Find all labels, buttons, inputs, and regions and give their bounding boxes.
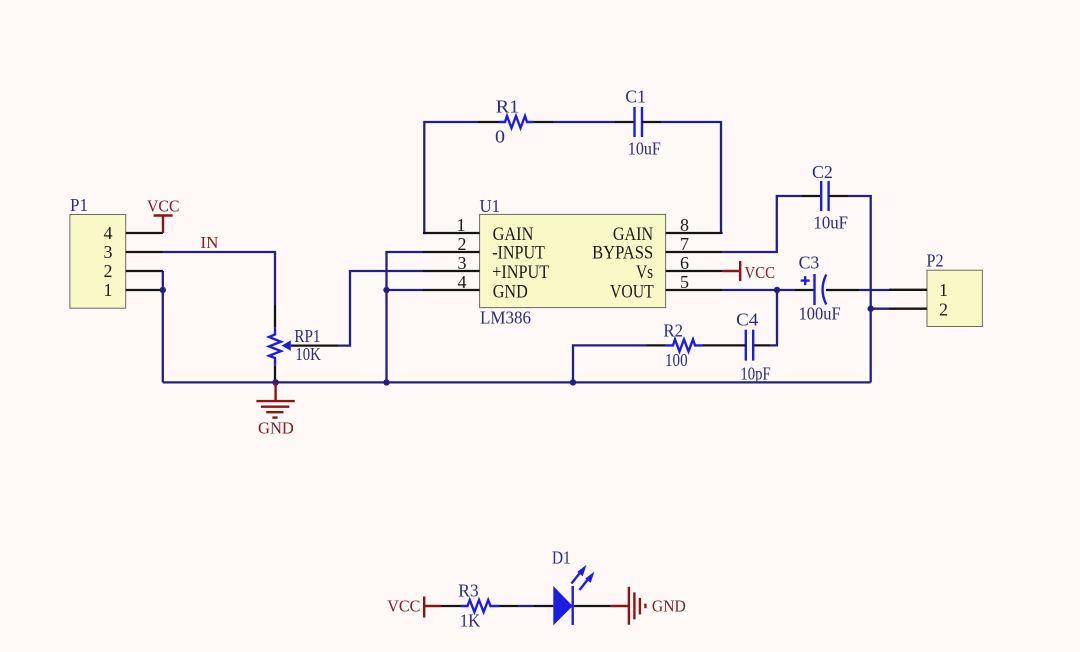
wire R1 to C1 <box>553 121 615 123</box>
wire U1 pin4 to pin2 branch <box>387 289 424 291</box>
power port VCC (U1 pin6) <box>723 261 775 282</box>
R3 left pin <box>441 605 461 607</box>
D1 triangle <box>553 586 572 625</box>
P1 pin 4 stub <box>126 232 163 234</box>
LED D1 <box>534 548 610 626</box>
C4 right pin <box>753 344 770 346</box>
C2 plates <box>820 181 822 211</box>
R2 zigzag body <box>666 339 703 351</box>
U1 pin 2 <box>423 234 480 254</box>
ground GND symbol (below RP1) <box>256 382 294 437</box>
wire C1 down to U1 pin8 <box>661 122 721 233</box>
svg-text:5: 5 <box>680 272 689 292</box>
wire VOUT node down to R2/C4 branch <box>770 290 777 345</box>
wire C3 to P2 pin1 <box>859 289 889 291</box>
svg-text:1: 1 <box>939 280 948 300</box>
svg-text:8: 8 <box>680 215 689 235</box>
C3 right pin <box>826 289 859 291</box>
node junction VOUT / C4 branch <box>774 287 780 293</box>
svg-text:R3: R3 <box>458 581 478 601</box>
svg-text:100: 100 <box>665 350 688 370</box>
U1 pin 7 <box>666 234 723 254</box>
C4 plates <box>745 330 747 361</box>
wire U1 pin5 VOUT to C3 <box>723 289 795 291</box>
wire R2 to ground rail <box>573 345 647 382</box>
wire P2 pin2 to output rail <box>871 308 889 310</box>
D1 light arrow 1 <box>572 572 582 584</box>
node junction U1 pin4 branch <box>383 287 389 293</box>
capacitor C3 (polarized 100uF) <box>795 252 859 323</box>
C1 left pin <box>615 121 635 123</box>
node junction at P1 pin1 <box>160 287 166 293</box>
svg-text:C3: C3 <box>799 252 820 272</box>
connector P1 <box>70 195 163 308</box>
svg-text:4: 4 <box>458 272 467 292</box>
U1 pin 6 <box>666 253 723 273</box>
svg-text:2: 2 <box>939 299 948 319</box>
C3 curved plate <box>823 275 827 305</box>
svg-text:2: 2 <box>104 261 113 281</box>
capacitor C4 <box>703 310 771 384</box>
svg-text:C1: C1 <box>625 86 646 106</box>
svg-text:10uF: 10uF <box>628 138 661 158</box>
svg-text:100uF: 100uF <box>799 303 841 323</box>
U1 pin 1 <box>423 215 480 235</box>
R1 right pin <box>534 121 553 123</box>
wire ground rail <box>163 381 871 383</box>
svg-text:2: 2 <box>458 234 467 254</box>
svg-text:VCC: VCC <box>387 597 420 616</box>
svg-text:4: 4 <box>104 223 113 243</box>
R3 zigzag body <box>461 600 500 612</box>
U1 pin 3 <box>423 253 480 273</box>
wire U1 pin2 to ground rail <box>387 252 424 382</box>
potentiometer RP1 <box>269 305 321 382</box>
RP1 resistor body <box>269 328 281 366</box>
wire P1 pin2 down to pin1 node <box>162 271 164 290</box>
C2 right pin <box>829 195 848 197</box>
svg-text:+INPUT: +INPUT <box>492 262 549 283</box>
svg-text:LM386: LM386 <box>480 307 531 327</box>
node junction P2 pin2 / output rail <box>868 306 874 312</box>
wire R3 to D1 <box>518 605 534 607</box>
svg-text:10K: 10K <box>295 344 320 364</box>
svg-text:-INPUT: -INPUT <box>492 243 545 264</box>
U1 pin 5 <box>666 272 723 292</box>
R1 zigzag body <box>499 116 534 128</box>
svg-text:P1: P1 <box>70 195 88 215</box>
svg-text:Vs: Vs <box>636 262 653 283</box>
capacitor C2 <box>802 162 848 232</box>
svg-text:BYPASS: BYPASS <box>592 243 653 264</box>
svg-text:1: 1 <box>104 280 113 300</box>
svg-text:3: 3 <box>458 253 467 273</box>
svg-text:D1: D1 <box>552 548 571 568</box>
R3 right pin <box>500 605 519 607</box>
svg-text:7: 7 <box>680 234 689 254</box>
C4 left pin <box>703 344 746 346</box>
wire U1 pin1 up to feedback loop <box>423 122 478 233</box>
P1 pin 1 stub <box>126 289 163 291</box>
svg-text:GND: GND <box>493 282 528 303</box>
P2 pin 1 stub <box>889 289 927 291</box>
node junction pin2 branch / ground rail <box>383 379 389 385</box>
resistor R1 <box>478 97 553 147</box>
svg-text:C2: C2 <box>812 162 833 182</box>
D1 cathode bar <box>572 586 574 625</box>
svg-text:R2: R2 <box>663 320 683 340</box>
svg-text:10uF: 10uF <box>814 212 849 232</box>
resistor R2 <box>647 320 704 370</box>
svg-text:3: 3 <box>104 242 113 262</box>
U1 pin 4 <box>423 272 480 292</box>
power port VCC (top left) <box>147 197 180 234</box>
R2 left pin <box>647 344 666 346</box>
wire pin1 node down to ground rail <box>162 290 164 382</box>
svg-text:P2: P2 <box>927 250 944 270</box>
svg-text:1: 1 <box>457 215 466 235</box>
ground GND symbol (LED circuit, sideways) <box>610 587 686 625</box>
R1 left pin <box>478 121 499 123</box>
D1 light arrow 2 <box>580 578 590 590</box>
connector P2 <box>889 250 982 326</box>
wire net IN: P1 pin3 to RP1 top <box>163 252 275 305</box>
P2 pin 2 stub <box>889 308 927 310</box>
capacitor C1 <box>615 86 661 158</box>
P1 pin 2 stub <box>126 270 163 272</box>
node junction RP1 bottom / ground rail <box>272 379 279 386</box>
power port VCC (LED circuit) <box>387 597 441 618</box>
resistor R3 <box>441 581 518 631</box>
C3 straight plate <box>813 274 815 305</box>
RP1 top pin <box>274 305 276 328</box>
svg-text:VOUT: VOUT <box>610 282 654 303</box>
U1 pin 8 <box>666 215 723 235</box>
C2 left pin <box>802 195 821 197</box>
RP1 bottom pin <box>274 365 276 382</box>
C1 plates <box>633 107 635 137</box>
svg-text:GND: GND <box>652 596 686 615</box>
P1 pin 3 stub <box>126 251 163 253</box>
svg-text:VCC: VCC <box>745 263 776 282</box>
node junction R2 branch / ground rail <box>570 379 576 385</box>
svg-text:GND: GND <box>258 419 294 438</box>
svg-text:10pF: 10pF <box>740 364 770 384</box>
RP1 wiper arrow <box>282 340 291 350</box>
C3 plus sign <box>801 279 810 281</box>
svg-text:6: 6 <box>680 253 689 273</box>
svg-text:VCC: VCC <box>147 197 180 216</box>
C1 right pin <box>642 121 661 123</box>
svg-text:R1: R1 <box>496 97 519 117</box>
svg-text:1K: 1K <box>460 610 481 630</box>
wire C2 right down to output rail <box>848 196 871 382</box>
svg-text:C4: C4 <box>736 310 758 330</box>
D1 cathode pin <box>574 605 610 607</box>
wire RP1 wiper to U1 pin3 <box>291 271 423 346</box>
C3 left pin <box>795 289 815 291</box>
wire U1 pin7 to C2 <box>723 196 802 252</box>
op-amp U1 LM386 <box>480 196 666 327</box>
svg-text:IN: IN <box>201 233 219 252</box>
svg-text:0: 0 <box>495 127 505 147</box>
svg-text:U1: U1 <box>480 196 501 216</box>
D1 anode pin <box>534 605 553 607</box>
